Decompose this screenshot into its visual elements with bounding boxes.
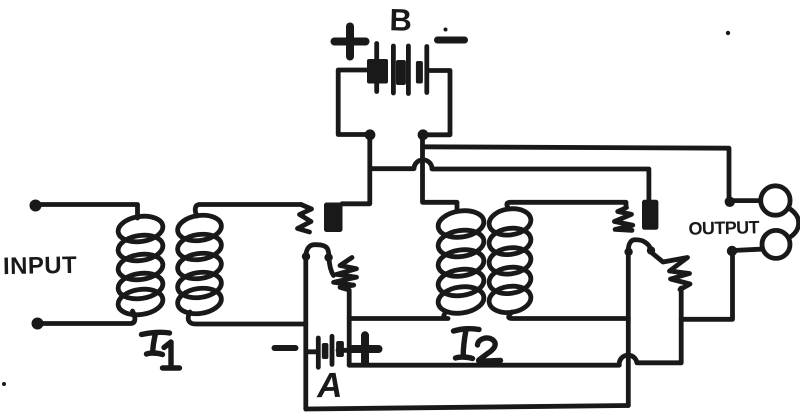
output top terminal dot	[725, 197, 735, 207]
transformer T2 primary winding	[436, 208, 485, 316]
catwhisker zigzag into Q2 base	[614, 208, 632, 231]
transformer T2 secondary winding	[487, 206, 532, 315]
Q1 hook contact dot right	[324, 253, 332, 261]
input terminal bottom	[32, 318, 44, 330]
wire input bottom to T1 primary	[38, 311, 135, 324]
wire input top to T1 primary	[36, 205, 138, 219]
output bottom terminal dot	[727, 246, 737, 256]
T2 label	[454, 329, 501, 362]
svg-text:INPUT: INPUT	[3, 252, 77, 280]
wire T2 secondary bottom to emitter rail	[509, 312, 629, 319]
Q2 catwhisker hook	[628, 240, 650, 252]
wire Q1 hook to bottom rail	[303, 257, 308, 410]
wire T2 secondary top to Q2 whisker	[507, 202, 626, 209]
T1 label	[142, 332, 180, 368]
ink speck near battery B	[444, 28, 448, 32]
Q1 catwhisker hooks	[306, 245, 329, 259]
ink speck top right	[726, 31, 730, 35]
input terminal top	[30, 200, 42, 212]
phone bottom circle	[762, 230, 790, 258]
wire output top dot to top phone	[730, 198, 759, 203]
wire top rail B- to output	[423, 147, 730, 198]
battery B right lead	[423, 71, 450, 135]
svg-text:A: A	[316, 366, 343, 405]
catwhisker zigzag into Q1 base	[298, 205, 312, 233]
transistor Q2 base block	[642, 200, 658, 230]
minus sign battery B	[438, 37, 465, 44]
junction dot B-	[418, 129, 429, 140]
svg-text:OUTPUT: OUTPUT	[688, 217, 759, 238]
wire T1 secondary top to Q1 whisker	[195, 205, 301, 217]
A+ feed to Q2 whisker with hop over emitter rail	[349, 355, 681, 365]
transistor Q1 base block	[324, 203, 343, 233]
wire Q2 whisker to A+ and output junction	[679, 289, 684, 363]
battery A cells	[306, 336, 349, 367]
phone top circle	[761, 186, 790, 215]
Q2 emitter whisker zigzag	[652, 253, 691, 290]
wire B- node down to T2 primary top	[423, 135, 458, 211]
ink speck bottom left	[2, 382, 6, 386]
Q2 hook contact dot left	[624, 248, 632, 256]
wire bottom rail up to Q2 hook	[626, 252, 631, 406]
wire T2 primary bottom to A+ rail	[349, 312, 448, 319]
Q2 hook contact dot right	[647, 246, 655, 254]
transformer T1 primary winding	[116, 213, 164, 317]
battery B cells	[367, 44, 427, 94]
bottom rail	[306, 406, 629, 410]
minus sign battery A	[275, 345, 296, 351]
plus sign battery A	[352, 335, 379, 363]
wire output bottom to junction	[681, 252, 732, 319]
wire Q1 base block to B+ node	[342, 136, 370, 204]
Q1 hook contact dot left	[302, 252, 310, 260]
wire output bottom dot to bottom phone	[733, 249, 761, 250]
wire A+ rail vertical Q1	[347, 291, 352, 365]
junction dot B+	[365, 129, 376, 140]
Q1 emitter whisker zigzag	[329, 258, 357, 291]
wire T1 secondary bottom	[188, 312, 306, 324]
wire Q1 base node to Q2 base block with hop	[370, 160, 649, 201]
svg-text:B: B	[389, 2, 412, 38]
battery B left lead	[338, 70, 370, 135]
transformer T1 secondary winding	[176, 213, 223, 317]
plus sign battery B	[335, 27, 366, 57]
phone connecting loop	[790, 209, 799, 238]
